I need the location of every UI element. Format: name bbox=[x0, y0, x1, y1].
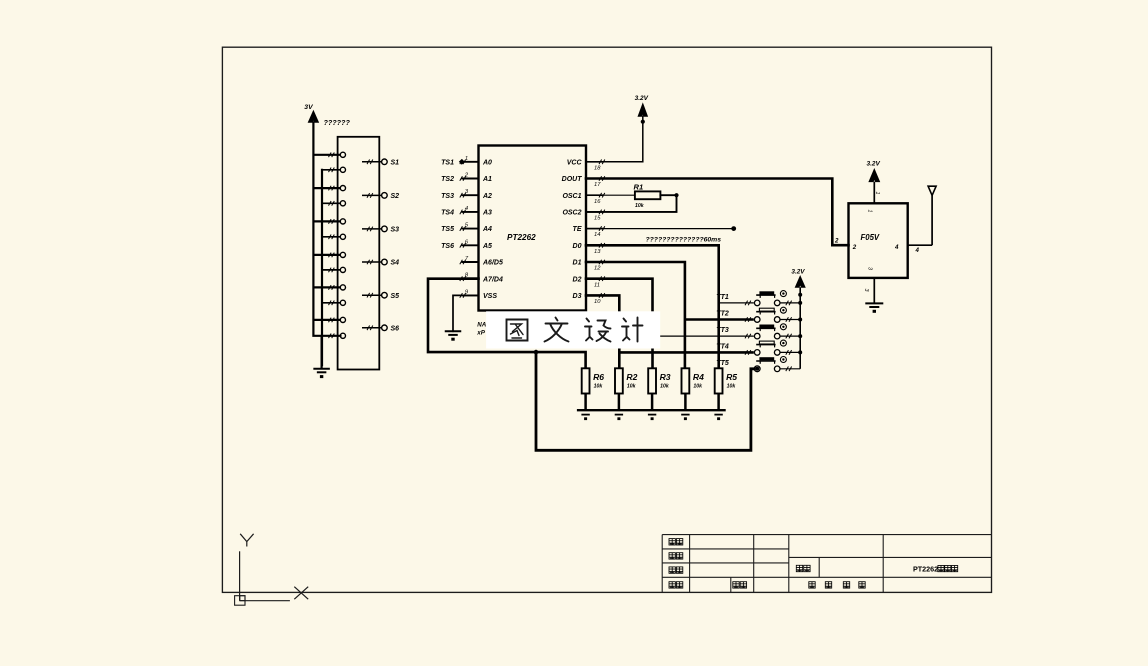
switch pin circle row 10 bbox=[340, 300, 345, 305]
svg-text:A6/D5: A6/D5 bbox=[482, 260, 503, 267]
ground (3V rail) bbox=[321, 336, 323, 369]
svg-text:R6: R6 bbox=[593, 372, 604, 382]
pin 1 bbox=[873, 182, 875, 204]
switch pin circle row 5 bbox=[340, 219, 345, 224]
svg-text:A4: A4 bbox=[482, 226, 492, 233]
svg-text:A0: A0 bbox=[482, 159, 492, 166]
pin 8 A7/D4 bbox=[462, 277, 479, 280]
switch pin circle row 12 bbox=[340, 333, 345, 338]
svg-text:DOUT: DOUT bbox=[562, 176, 583, 183]
wire D3 net bbox=[586, 295, 619, 368]
svg-text:R5: R5 bbox=[726, 372, 737, 382]
wire OSC1 to OSC2 bbox=[586, 195, 677, 212]
junction bbox=[798, 293, 802, 297]
pin 11 D2 bbox=[586, 278, 604, 280]
wire bbox=[780, 351, 800, 353]
title block table bbox=[661, 535, 663, 593]
svg-text:R1: R1 bbox=[634, 183, 644, 192]
pin 7 A6/D5 bbox=[462, 261, 479, 263]
switch pin circle row 6 bbox=[340, 234, 345, 239]
UCS icon X axis label bbox=[294, 587, 308, 600]
svg-text:D2: D2 bbox=[573, 276, 582, 283]
svg-text:3: 3 bbox=[863, 289, 869, 292]
ground (R4) bbox=[681, 414, 689, 416]
pin 4 bbox=[908, 244, 932, 246]
pin 4 A3 bbox=[462, 211, 479, 213]
svg-text:2: 2 bbox=[852, 244, 857, 251]
switch pin circle row 11 bbox=[340, 317, 345, 322]
svg-text:4: 4 bbox=[465, 206, 468, 212]
wire switch row 12 bbox=[329, 334, 332, 339]
svg-text:TS6: TS6 bbox=[441, 243, 454, 250]
svg-text:10k: 10k bbox=[594, 383, 604, 389]
resistor R3 bbox=[648, 368, 656, 393]
resistor R6 bbox=[582, 368, 590, 393]
wire D2 net bbox=[586, 279, 653, 369]
resistor R4 bbox=[682, 368, 690, 393]
svg-text:D1: D1 bbox=[573, 260, 582, 267]
svg-text:TT2: TT2 bbox=[716, 311, 729, 318]
svg-text:12: 12 bbox=[594, 266, 601, 272]
title block label bbox=[669, 567, 675, 573]
svg-text:1: 1 bbox=[874, 192, 880, 195]
wire TE bbox=[586, 228, 734, 230]
ground (R2) bbox=[615, 414, 623, 416]
junction bbox=[798, 334, 802, 338]
wire bottom loop to TT5 bbox=[536, 352, 754, 450]
svg-text:TT3: TT3 bbox=[716, 327, 729, 334]
svg-text:xP: xP bbox=[476, 329, 485, 336]
wire D1 net bbox=[586, 262, 685, 368]
svg-text:1: 1 bbox=[867, 210, 873, 213]
wire switch row 9 bbox=[313, 286, 340, 288]
antenna bbox=[928, 186, 936, 195]
svg-text:NA: NA bbox=[477, 321, 486, 328]
drawing border frame bbox=[222, 47, 991, 592]
svg-text:OSC1: OSC1 bbox=[562, 193, 581, 200]
svg-text:S2: S2 bbox=[391, 193, 400, 200]
wire VSS bbox=[453, 295, 479, 331]
wire switch row 6 bbox=[322, 236, 340, 238]
svg-text:D3: D3 bbox=[573, 293, 582, 300]
svg-text:10k: 10k bbox=[727, 383, 737, 389]
switch pin circle row 2 bbox=[340, 167, 345, 172]
wire switch row 10 bbox=[322, 302, 340, 304]
svg-text:4: 4 bbox=[894, 244, 899, 251]
module U2 F05V body bbox=[849, 203, 908, 278]
pin 18 VCC bbox=[586, 161, 604, 163]
ground (R5) bbox=[714, 414, 722, 416]
switch output S4 bbox=[362, 261, 381, 263]
wire D0 net bbox=[586, 245, 719, 368]
wire switch row 4 bbox=[322, 202, 340, 204]
svg-text:3.2V: 3.2V bbox=[791, 268, 805, 275]
wire switch row 7 bbox=[313, 254, 340, 256]
pin 16 OSC1 bbox=[586, 194, 604, 196]
pin A0 junction marker bbox=[459, 159, 465, 165]
svg-text:A3: A3 bbox=[482, 210, 492, 217]
svg-text:F05V: F05V bbox=[861, 233, 880, 242]
resistor R1 bbox=[635, 191, 661, 199]
title block label bbox=[669, 539, 675, 545]
wire bbox=[780, 302, 800, 304]
switch pin circle row 1 bbox=[340, 152, 345, 157]
watermark box bbox=[486, 311, 660, 348]
wire bbox=[780, 319, 800, 321]
UCS icon origin box bbox=[235, 596, 245, 606]
svg-text:14: 14 bbox=[594, 232, 600, 238]
pin 17 DOUT bbox=[586, 178, 604, 180]
pin 3 bbox=[873, 278, 875, 304]
pin 2 A1 bbox=[462, 178, 479, 180]
watermark text tu wen she ji bbox=[507, 320, 528, 341]
svg-text:16: 16 bbox=[594, 199, 601, 205]
UCS icon Y axis label bbox=[240, 534, 253, 547]
ground (R6) bbox=[581, 414, 589, 416]
svg-text:S4: S4 bbox=[391, 260, 400, 267]
title block label bbox=[669, 582, 675, 588]
UCS icon Y axis line bbox=[239, 551, 241, 600]
svg-text:2: 2 bbox=[834, 238, 839, 245]
junction TE end bbox=[731, 226, 736, 231]
svg-text:13: 13 bbox=[594, 249, 601, 255]
pin 9 VSS bbox=[462, 294, 479, 296]
svg-text:TS3: TS3 bbox=[441, 193, 454, 200]
title block label bbox=[669, 553, 675, 559]
op-amp U1 PT2262 body bbox=[479, 146, 587, 311]
switch pin circle row 7 bbox=[340, 252, 345, 257]
junction bbox=[798, 301, 802, 305]
junction bbox=[641, 120, 645, 124]
svg-text:A2: A2 bbox=[482, 193, 492, 200]
svg-text:10: 10 bbox=[594, 299, 601, 305]
pin 5 A4 bbox=[462, 228, 479, 230]
svg-text:10k: 10k bbox=[660, 383, 670, 389]
svg-text:R3: R3 bbox=[660, 372, 671, 382]
wire button supply rail bbox=[799, 287, 801, 369]
wire OSC1 bbox=[586, 194, 635, 196]
resistor R5 bbox=[715, 368, 723, 393]
svg-text:3V: 3V bbox=[304, 104, 314, 111]
switch pin circle row 8 bbox=[340, 267, 345, 272]
title block sheet label bbox=[809, 582, 815, 588]
svg-text:PT2262: PT2262 bbox=[913, 564, 938, 573]
wire TT1 row bbox=[719, 302, 754, 304]
svg-text:TT4: TT4 bbox=[716, 343, 729, 350]
svg-text:R2: R2 bbox=[626, 372, 637, 382]
pin 6 A5 bbox=[462, 244, 479, 246]
svg-text:R4: R4 bbox=[693, 372, 704, 382]
svg-text:S5: S5 bbox=[391, 293, 400, 300]
pin 13 D0 bbox=[586, 244, 604, 246]
wire TT2 row bbox=[685, 318, 754, 321]
wire TT3 row bbox=[653, 335, 754, 337]
wire switch common rail bbox=[321, 170, 323, 365]
junction bbox=[534, 350, 539, 355]
svg-text:A1: A1 bbox=[482, 176, 492, 183]
switch output S3 bbox=[362, 228, 381, 230]
svg-text:17: 17 bbox=[594, 182, 601, 188]
svg-text:TS2: TS2 bbox=[441, 176, 454, 183]
svg-text:3: 3 bbox=[867, 267, 873, 270]
pin 10 D3 bbox=[586, 294, 604, 296]
svg-text:TS1: TS1 bbox=[441, 159, 454, 166]
svg-text:1: 1 bbox=[465, 156, 468, 162]
svg-text:S3: S3 bbox=[391, 227, 400, 234]
svg-text:S6: S6 bbox=[391, 325, 400, 332]
switch output S1 bbox=[362, 161, 381, 163]
wire A7/D4 loop bbox=[428, 279, 586, 369]
switch pin circle row 4 bbox=[340, 201, 345, 206]
switch pin circle row 9 bbox=[340, 285, 345, 290]
svg-text:OSC2: OSC2 bbox=[562, 210, 581, 217]
wire bbox=[780, 368, 800, 370]
svg-text:D0: D0 bbox=[573, 243, 582, 250]
svg-text:PT2262: PT2262 bbox=[507, 233, 536, 242]
svg-text:10k: 10k bbox=[693, 383, 703, 389]
title block label 数量 bbox=[796, 565, 802, 571]
ground (R3) bbox=[648, 414, 656, 416]
wire bbox=[780, 335, 800, 337]
wire TT4 row bbox=[619, 351, 754, 354]
switch block body SW DIP bbox=[338, 137, 380, 370]
switch pin circle row 3 bbox=[340, 186, 345, 191]
svg-text:A5: A5 bbox=[482, 243, 492, 250]
svg-text:??????????????60ms: ??????????????60ms bbox=[646, 237, 722, 244]
svg-text:4: 4 bbox=[915, 247, 920, 254]
pin 12 D1 bbox=[586, 261, 604, 263]
wire switch row 11 bbox=[313, 319, 340, 321]
svg-text:18: 18 bbox=[594, 165, 601, 171]
junction bbox=[674, 193, 678, 197]
svg-text:11: 11 bbox=[594, 282, 600, 288]
UCS icon X axis line bbox=[240, 600, 290, 602]
switch output S6 bbox=[362, 327, 381, 329]
switch output S5 bbox=[362, 294, 381, 296]
wire DOUT to F05V bbox=[586, 179, 849, 246]
pin 1 A0 bbox=[462, 161, 479, 163]
svg-text:VCC: VCC bbox=[567, 159, 583, 166]
wire VCC net bbox=[586, 116, 643, 162]
svg-text:TS4: TS4 bbox=[441, 210, 454, 217]
svg-text:TS5: TS5 bbox=[441, 226, 454, 233]
wire switch row 3 bbox=[313, 187, 340, 189]
pin 15 OSC2 bbox=[586, 211, 604, 213]
junction bbox=[798, 318, 802, 322]
title block label 学号 bbox=[733, 582, 739, 588]
ground (VSS) bbox=[445, 330, 462, 332]
pin 14 TE bbox=[586, 228, 604, 230]
wire switch row 1 bbox=[313, 154, 340, 156]
svg-text:S1: S1 bbox=[391, 159, 400, 166]
svg-text:A7/D4: A7/D4 bbox=[482, 276, 503, 283]
ground (F05V) bbox=[865, 302, 883, 304]
switch output S2 bbox=[362, 194, 381, 196]
svg-text:TE: TE bbox=[573, 226, 582, 233]
pin 3 A2 bbox=[462, 194, 479, 196]
svg-text:TT5: TT5 bbox=[716, 360, 729, 367]
wire switch row 5 bbox=[313, 220, 340, 222]
svg-text:??????: ?????? bbox=[324, 118, 351, 127]
wire ground rail bbox=[577, 409, 726, 411]
resistor R2 bbox=[615, 368, 623, 393]
svg-text:TT1: TT1 bbox=[716, 294, 729, 301]
svg-text:VSS: VSS bbox=[483, 293, 497, 300]
svg-text:10k: 10k bbox=[635, 203, 645, 209]
junction bbox=[798, 350, 802, 354]
svg-text:15: 15 bbox=[594, 216, 601, 222]
svg-text:10k: 10k bbox=[627, 383, 637, 389]
wire switch row 2 bbox=[322, 169, 340, 171]
wire switch row 8 bbox=[322, 269, 340, 271]
svg-text:3.2V: 3.2V bbox=[867, 161, 881, 168]
svg-text:3.2V: 3.2V bbox=[635, 95, 649, 102]
wire 3V rail bbox=[313, 122, 340, 335]
